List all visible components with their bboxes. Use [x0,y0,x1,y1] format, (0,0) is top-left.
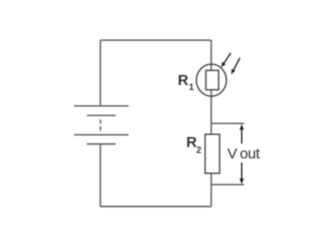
svg-text:V: V [227,146,237,163]
label R1 [178,73,194,92]
svg-text:out: out [240,146,261,163]
wire: left side upper (battery + terminal) [99,40,101,106]
light arrow 2 (into R1) [231,58,240,74]
svg-text:1: 1 [189,82,194,92]
svg-text:R: R [178,73,189,89]
label R2 [186,135,201,155]
label V out [227,146,260,163]
wire: right side [210,40,212,206]
battery (multi-cell) [74,106,129,144]
resistor R2 (box) [205,134,220,173]
wire: left side lower (battery - terminal) [99,144,101,207]
V out tap wire: top [211,122,244,124]
svg-text:2: 2 [196,145,201,155]
V out arrow: down [240,163,244,185]
V out arrow: up [240,124,244,143]
wire: bottom side [100,206,211,208]
light arrow 1 (into R1) [221,53,231,67]
wire: top side [100,39,211,41]
LDR R1 symbol (circle + element box) [196,64,226,96]
V out tap wire: bottom [211,184,244,186]
